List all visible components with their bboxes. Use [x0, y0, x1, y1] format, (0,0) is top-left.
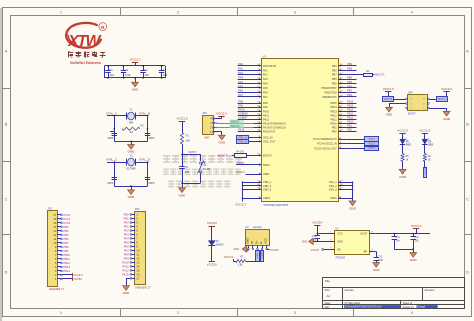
svg-text:VCC5V: VCC5V: [207, 263, 218, 267]
svg-text:VCC3.3: VCC3.3: [441, 87, 452, 91]
svg-text:PA14/JTCK/SWCLK: PA14/JTCK/SWCLK: [263, 125, 286, 129]
svg-text:BP: BP: [364, 250, 368, 254]
svg-text:PB4: PB4: [63, 229, 69, 233]
svg-text:PB7: PB7: [332, 73, 337, 77]
svg-text:JP1: JP1: [48, 206, 53, 210]
svg-text:NRST: NRST: [188, 150, 196, 154]
svg-text:PA2: PA2: [263, 73, 268, 77]
svg-text:VBAT: VBAT: [263, 172, 270, 176]
svg-text:PB3/JTDO: PB3/JTDO: [325, 90, 337, 94]
power VCC5V (reg input): [314, 225, 320, 227]
svg-text:Sheet of: Sheet of: [403, 301, 413, 305]
svg-text:PC13-TAMPER-RTC: PC13-TAMPER-RTC: [313, 137, 337, 141]
node BOOT0 (jumper): [383, 97, 394, 102]
wire reset bottom: [182, 183, 201, 185]
svg-text:PA1: PA1: [124, 225, 129, 229]
svg-text:VCC3.3: VCC3.3: [419, 128, 430, 132]
svg-text:PA9: PA9: [238, 104, 243, 108]
svg-text:PA0: PA0: [238, 62, 243, 66]
svg-text:VCC3.3: VCC3.3: [235, 202, 246, 206]
svg-text:VCC3.3: VCC3.3: [411, 224, 422, 228]
power VCC3.3 (JP3 pin4): [215, 118, 222, 120]
svg-text:PA12: PA12: [122, 269, 129, 273]
ground (D2 chain): [402, 168, 404, 170]
svg-text:RT9193: RT9193: [336, 256, 346, 260]
svg-text:VDD_2: VDD_2: [263, 184, 272, 188]
svg-text:PC14-OSC32_IN: PC14-OSC32_IN: [317, 142, 337, 146]
svg-text:PA9: PA9: [124, 257, 129, 261]
svg-text:PA10: PA10: [263, 109, 270, 113]
resistor R2 1M: [122, 127, 140, 130]
svg-text:PB13: PB13: [330, 109, 337, 113]
svg-text:XinTaiWei Electronic: XinTaiWei Electronic: [70, 61, 101, 65]
svg-text:PA3: PA3: [238, 76, 243, 80]
svg-text:D:\Protel99\STM32F103C8T6.Sch: D:\Protel99\STM32F103C8T6.Sch: [345, 306, 382, 309]
svg-text:22PF: 22PF: [108, 182, 114, 185]
power VCC3.3 (D2): [399, 133, 405, 135]
svg-text:XTAL_C: XTAL_C: [106, 158, 118, 162]
svg-text:A4: A4: [327, 294, 331, 298]
svg-text:PA3: PA3: [124, 233, 129, 237]
svg-text:22PF: 22PF: [108, 137, 114, 140]
svg-text:PB8: PB8: [63, 245, 69, 249]
wire xtal2 sides: [114, 161, 116, 163]
wire to button: [182, 154, 201, 156]
wire bottom rail: [104, 77, 165, 79]
svg-text:IN5819: IN5819: [216, 243, 224, 246]
svg-text:PB3: PB3: [347, 89, 352, 93]
svg-text:C2: C2: [125, 68, 129, 72]
svg-text:VCC: VCC: [337, 232, 343, 236]
svg-text:PA15: PA15: [122, 273, 129, 277]
svg-text:GND: GND: [123, 291, 131, 295]
wire JP4 mid-left + ground: [389, 103, 406, 105]
svg-text:3: 3: [294, 10, 296, 14]
svg-text:PB14: PB14: [330, 105, 337, 109]
svg-text:PA1: PA1: [238, 67, 243, 71]
svg-text:PC13: PC13: [369, 138, 376, 141]
svg-text:PA9: PA9: [263, 105, 268, 109]
power VCC5V (diode bottom): [209, 261, 215, 263]
power VCC3.3 (reset): [179, 121, 185, 123]
svg-text:Number: Number: [345, 288, 354, 292]
ground (reset): [179, 188, 186, 193]
node XTAL_B: [249, 141, 254, 143]
svg-text:JP3: JP3: [202, 111, 207, 115]
svg-text:NRST: NRST: [237, 161, 245, 165]
svg-text:Date:: Date:: [325, 301, 331, 305]
svg-text:22nF: 22nF: [378, 260, 384, 262]
capacitor C8 22PF: [147, 170, 149, 177]
svg-text:2: 2: [177, 10, 179, 14]
svg-text:STM32F103C8T6: STM32F103C8T6: [264, 203, 289, 207]
svg-text:C: C: [466, 197, 469, 201]
svg-text:PA10: PA10: [122, 261, 129, 265]
svg-text:USBDP: USBDP: [238, 116, 247, 120]
svg-text:27-May-2024: 27-May-2024: [345, 301, 361, 305]
ground (MCU VSS): [349, 201, 356, 206]
svg-text:PB9: PB9: [347, 62, 352, 66]
svg-text:C: C: [5, 197, 8, 201]
svg-text:PB4: PB4: [347, 84, 352, 88]
svg-text:ID: ID: [250, 241, 254, 244]
svg-text:PB8: PB8: [332, 68, 337, 72]
svg-text:VCC5V: VCC5V: [312, 220, 323, 224]
svg-text:PA8: PA8: [238, 100, 243, 104]
svg-text:PA1: PA1: [263, 68, 268, 72]
svg-text:VSS_1: VSS_1: [329, 180, 338, 184]
node USBD- (usb): [261, 251, 264, 262]
svg-text:PA0: PA0: [124, 221, 129, 225]
svg-text:0805: 0805: [428, 145, 434, 147]
svg-text:GND: GND: [245, 238, 249, 244]
svg-text:PC13: PC13: [423, 168, 426, 175]
svg-text:XTAL_A: XTAL_A: [106, 111, 117, 115]
svg-text:1M: 1M: [129, 131, 132, 134]
svg-text:1: 1: [60, 311, 62, 315]
svg-text:USBDM: USBDM: [238, 112, 247, 116]
svg-text:10K: 10K: [186, 139, 191, 142]
capacitor C11 104: [394, 234, 396, 237]
svg-text:PA7: PA7: [263, 95, 268, 99]
svg-text:PA6: PA6: [238, 89, 243, 93]
svg-text:PB2: PB2: [347, 93, 352, 97]
capacitor C4: [161, 66, 163, 70]
svg-text:PB10: PB10: [63, 253, 70, 257]
capacitor C3: [143, 66, 145, 70]
power VCC3.3 (JP4 left): [385, 91, 391, 93]
svg-text:C1: C1: [109, 68, 113, 72]
svg-text:PB12: PB12: [330, 113, 337, 117]
svg-text:GND: GND: [399, 175, 407, 179]
svg-text:PB0: PB0: [347, 128, 352, 132]
svg-text:PB12: PB12: [63, 261, 70, 265]
svg-text:PA4: PA4: [238, 80, 243, 84]
svg-text:VCCIN: VCCIN: [270, 248, 278, 252]
svg-text:PB3: PB3: [63, 225, 69, 229]
svg-text:XTAL_D: XTAL_D: [139, 158, 151, 162]
ground (xtal1): [131, 141, 133, 144]
diode D1 IN5819: [208, 241, 215, 246]
svg-text:SWDIO: SWDIO: [230, 120, 239, 124]
svg-text:4: 4: [411, 311, 413, 315]
svg-text:Y2: Y2: [129, 154, 133, 158]
svg-text:U2: U2: [245, 225, 249, 229]
svg-text:PB1: PB1: [332, 125, 337, 129]
svg-text:VCC3.3: VCC3.3: [236, 171, 245, 174]
node USBDM: [238, 115, 254, 117]
wire VOUT rail: [376, 233, 430, 235]
sheet border frame: [0, 8, 2, 321]
svg-text:PA10: PA10: [238, 108, 245, 112]
svg-text:3: 3: [294, 311, 296, 315]
svg-text:PB8: PB8: [347, 67, 352, 71]
node XTAL_A: [249, 137, 254, 139]
svg-text:1K: 1K: [406, 159, 409, 161]
capacitor C1: [108, 66, 110, 70]
capacitor C13 22nF (BP): [375, 251, 377, 253]
svg-text:PA4: PA4: [124, 237, 129, 241]
svg-text:D: D: [466, 270, 469, 274]
svg-text:PB0: PB0: [332, 129, 337, 133]
power (JP1 pin 1): [62, 278, 72, 280]
svg-text:Revision: Revision: [425, 288, 436, 292]
svg-text:22PF: 22PF: [149, 182, 155, 185]
svg-text:VSS_2: VSS_2: [329, 184, 338, 188]
node USBDP: [238, 119, 254, 121]
power VCC3.3 (JP4 right): [443, 91, 449, 93]
svg-text:BOOT0: BOOT0: [263, 154, 272, 158]
svg-text:PB6: PB6: [332, 77, 337, 81]
svg-text:GND: GND: [373, 268, 381, 272]
wire SWCLK (highlighted): [215, 126, 262, 128]
svg-text:Drawn by:: Drawn by:: [403, 305, 415, 309]
svg-text:D-: D-: [259, 241, 263, 244]
svg-text:PB2/BOOT1: PB2/BOOT1: [323, 95, 338, 99]
svg-text:HEADER 17: HEADER 17: [49, 287, 64, 291]
svg-text:K1-PB: K1-PB: [203, 168, 210, 171]
ground (reg input, left arrow): [317, 241, 328, 243]
svg-text:BOOT0: BOOT0: [384, 99, 393, 101]
svg-text:PB7: PB7: [63, 241, 69, 245]
svg-text:GND: GND: [179, 193, 187, 197]
svg-text:PB11: PB11: [63, 257, 70, 261]
wire xtal1 left/right: [114, 115, 116, 117]
power (JP1 pin 2): [62, 274, 72, 276]
svg-text:PA5: PA5: [263, 86, 268, 90]
svg-text:PB6: PB6: [63, 237, 69, 241]
svg-text:17: 17: [136, 276, 140, 280]
ground (BP cap): [373, 263, 380, 268]
svg-text:PB5: PB5: [332, 82, 337, 86]
svg-text:PA0-WKUP: PA0-WKUP: [263, 64, 276, 68]
svg-text:USBD+: USBD+: [257, 250, 259, 258]
svg-text:PA2: PA2: [124, 229, 129, 233]
svg-text:VCCIN: VCCIN: [207, 221, 217, 225]
svg-text:Y1: Y1: [129, 108, 133, 112]
svg-text:PB1: PB1: [124, 217, 130, 221]
svg-text:VSSA: VSSA: [330, 196, 337, 200]
ground (xtal2): [131, 186, 133, 190]
svg-text:PB6: PB6: [347, 76, 352, 80]
svg-text:GND: GND: [233, 248, 239, 251]
svg-text:PB9: PB9: [63, 249, 69, 253]
svg-text:VCC3.3: VCC3.3: [177, 116, 188, 120]
svg-text:XTAL_A: XTAL_A: [238, 136, 247, 139]
svg-text:GND: GND: [302, 241, 308, 244]
svg-text:D+: D+: [255, 240, 259, 244]
svg-text:32.768K: 32.768K: [126, 167, 136, 171]
svg-text:104: 104: [185, 171, 190, 174]
svg-text:PB10: PB10: [347, 120, 354, 124]
svg-text:VCC: VCC: [264, 238, 268, 244]
svg-text:Title: Title: [325, 279, 331, 283]
svg-text:PB14: PB14: [63, 269, 70, 273]
node BOOT1 (jumper): [429, 99, 436, 101]
svg-text:OSC_IN: OSC_IN: [263, 136, 273, 140]
ground (JP2 pin 17): [126, 278, 130, 280]
wire top rail: [104, 65, 165, 67]
svg-text:VCC3.3: VCC3.3: [216, 111, 227, 115]
capacitor C2: [123, 66, 125, 70]
svg-text:PA8: PA8: [124, 253, 129, 257]
svg-text:GND: GND: [218, 140, 226, 144]
svg-text:VDD_3: VDD_3: [263, 187, 272, 191]
capacitor C5 22PF: [110, 131, 114, 133]
svg-text:C12: C12: [415, 237, 420, 239]
svg-text:XTAL_B: XTAL_B: [238, 141, 247, 144]
svg-text:XTAL_B: XTAL_B: [139, 111, 150, 115]
svg-text:0805: 0805: [406, 145, 412, 147]
node PC13 (vertical label): [424, 168, 427, 178]
svg-text:OSC_OUT: OSC_OUT: [263, 140, 276, 144]
ground (usb): [248, 249, 250, 252]
svg-text:PA5: PA5: [124, 241, 129, 245]
svg-text:PB11: PB11: [331, 117, 338, 121]
svg-text:PC14: PC14: [369, 143, 376, 146]
node USBD+ (usb): [256, 251, 260, 262]
svg-text:PA6: PA6: [124, 245, 129, 249]
svg-text:PB4/JNTRST: PB4/JNTRST: [321, 86, 337, 90]
svg-text:PA11: PA11: [122, 265, 129, 269]
title block: [323, 278, 465, 309]
svg-text:PA5: PA5: [238, 84, 243, 88]
capacitor C10 105: [317, 234, 319, 236]
ground (reg out caps): [394, 249, 413, 251]
svg-text:104: 104: [163, 73, 168, 77]
svg-text:VSS_3: VSS_3: [329, 187, 338, 191]
svg-text:PA7: PA7: [238, 93, 243, 97]
svg-text:1: 1: [60, 10, 62, 14]
capacitor C12 105: [413, 234, 415, 237]
svg-text:C13: C13: [378, 256, 383, 258]
svg-text:8M: 8M: [129, 121, 133, 125]
svg-text:PB5: PB5: [63, 233, 69, 237]
svg-text:PA4: PA4: [263, 82, 268, 86]
node NRST: [182, 144, 184, 154]
svg-text:VCC3.3: VCC3.3: [73, 273, 83, 277]
svg-text:PA6: PA6: [263, 90, 268, 94]
watermark: [163, 155, 170, 157]
svg-text:PA13/JTMS/SWDIO: PA13/JTMS/SWDIO: [263, 121, 286, 125]
svg-text:VCC3.3: VCC3.3: [383, 87, 394, 91]
svg-text:PB14: PB14: [347, 104, 354, 108]
wire xtal1 bottom: [114, 141, 147, 143]
svg-text:BOOT0: BOOT0: [218, 153, 228, 157]
wire PA15: [238, 131, 254, 133]
svg-text:PA2: PA2: [238, 71, 243, 75]
svg-text:2: 2: [177, 311, 179, 315]
wire xtal2 bottom: [114, 186, 147, 188]
resistor R3 10K (BOOT1): [364, 74, 373, 77]
svg-text:47uF: 47uF: [125, 73, 131, 77]
svg-text:GND: GND: [132, 88, 140, 92]
svg-text:Size: Size: [325, 288, 331, 292]
svg-text:C10: C10: [312, 236, 317, 238]
svg-text:VCCIN: VCCIN: [311, 248, 319, 252]
svg-text:PA12: PA12: [263, 117, 270, 121]
svg-text:PB11: PB11: [347, 116, 354, 120]
svg-text:PC15: PC15: [369, 147, 376, 150]
svg-text:VOUT: VOUT: [360, 232, 368, 236]
svg-text:PB12: PB12: [347, 112, 354, 116]
LED D2: [400, 139, 406, 144]
svg-text:PA7: PA7: [124, 249, 129, 253]
resistor R5 1K: [401, 154, 404, 162]
svg-text:PB5: PB5: [347, 80, 352, 84]
svg-text:VDDA: VDDA: [263, 196, 270, 200]
svg-text:EN: EN: [337, 248, 341, 252]
svg-text:D: D: [5, 270, 8, 274]
svg-text:HEADER 17: HEADER 17: [136, 285, 151, 289]
svg-text:22PF: 22PF: [149, 137, 155, 140]
svg-text:PB15: PB15: [330, 101, 337, 105]
svg-text:GND: GND: [204, 136, 210, 139]
svg-text:PA15/JTDI: PA15/JTDI: [263, 129, 275, 133]
power VCC3.3 (D3): [422, 133, 428, 135]
svg-text:PB1: PB1: [347, 124, 352, 128]
svg-text:4: 4: [411, 10, 413, 14]
svg-text:JP2: JP2: [135, 207, 140, 211]
svg-text:BOOT: BOOT: [408, 112, 416, 116]
svg-text:PC13: PC13: [63, 213, 70, 217]
svg-text:XTW: XTW: [67, 33, 102, 50]
svg-text:GND: GND: [443, 117, 451, 121]
svg-text:SWCLK: SWCLK: [230, 124, 239, 128]
resistor R6 1K: [423, 154, 426, 162]
svg-text:PA3: PA3: [263, 77, 268, 81]
svg-text:1K: 1K: [428, 159, 431, 161]
ground (JP3 pin1): [215, 131, 222, 133]
svg-text:PC15: PC15: [63, 221, 70, 225]
wire JP4 bottom-right + ground: [429, 108, 446, 110]
power VCC3.3 (reg out): [413, 228, 419, 230]
svg-text:PB9: PB9: [332, 64, 337, 68]
svg-text:GND: GND: [337, 240, 343, 244]
svg-text:U3: U3: [335, 226, 339, 230]
svg-text:C4: C4: [163, 68, 167, 72]
svg-text:VCC3.3: VCC3.3: [130, 58, 141, 62]
svg-text:miniusb: miniusb: [253, 225, 262, 229]
svg-text:PC15-OSC32_OUT: PC15-OSC32_OUT: [314, 146, 337, 150]
wire SWDIO (highlighted): [215, 122, 262, 124]
wire usb VCC: [266, 249, 268, 251]
Chinese text 信泰微电子: [68, 51, 70, 57]
svg-text:PB13: PB13: [63, 265, 70, 269]
svg-text:BOOT1: BOOT1: [438, 99, 447, 101]
svg-text:PA11: PA11: [263, 113, 269, 117]
svg-text:VCC3.3: VCC3.3: [397, 128, 408, 132]
svg-text:PB0: PB0: [124, 213, 130, 217]
ground (cap bank): [134, 77, 136, 79]
svg-text:VDD_1: VDD_1: [263, 180, 272, 184]
XTW logo: [66, 23, 101, 48]
svg-text:GND: GND: [410, 258, 418, 262]
svg-text:NRST: NRST: [263, 163, 270, 167]
svg-text:VCC5V: VCC5V: [73, 277, 82, 281]
svg-text:PA8: PA8: [263, 101, 268, 105]
svg-text:PB13: PB13: [347, 108, 354, 112]
svg-text:PA15: PA15: [238, 128, 245, 132]
svg-text:File:: File:: [325, 305, 330, 309]
capacitor C6 22PF: [147, 131, 149, 133]
svg-text:GND: GND: [128, 150, 136, 154]
svg-text:GND: GND: [349, 206, 357, 210]
svg-text:VCC3.3: VCC3.3: [224, 255, 234, 259]
svg-text:BOOT1: BOOT1: [375, 73, 385, 77]
LED D3: [422, 139, 428, 144]
svg-text:R4 100: R4 100: [236, 152, 244, 154]
